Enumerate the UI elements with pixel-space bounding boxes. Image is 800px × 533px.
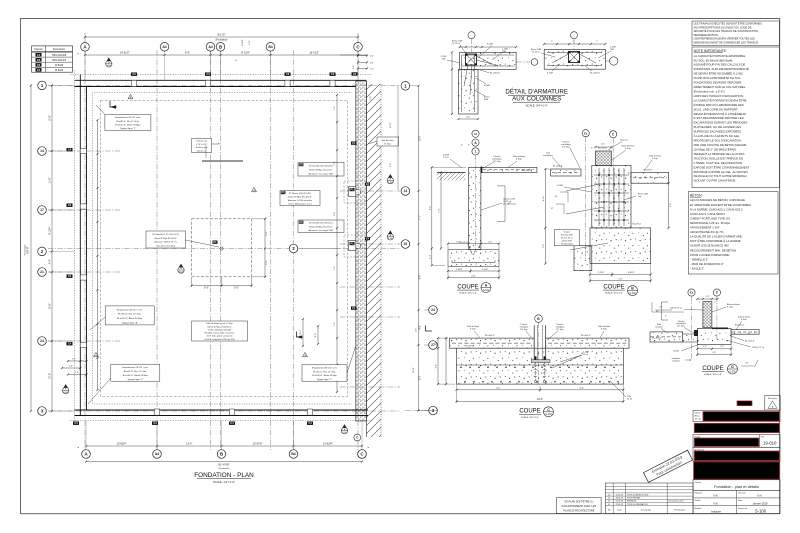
svg-text:HY-200 (Typé): HY-200 (Typé)	[561, 244, 573, 246]
svg-text:Description: Description	[641, 509, 652, 512]
svg-text:No:: No:	[761, 437, 765, 439]
dowel dots	[469, 246, 471, 248]
svg-text:C4: C4	[68, 274, 72, 278]
svg-text:S-100: S-100	[630, 293, 637, 295]
svg-text:Trait de scie: Trait de scie	[196, 140, 208, 143]
svg-text:PAR UNE COUCHE DE BÉTON MAIGRE: PAR UNE COUCHE DE BÉTON MAIGRE	[694, 142, 747, 147]
svg-text:A: A	[485, 284, 488, 288]
svg-text:13'-63/4": 13'-63/4"	[117, 443, 127, 446]
svg-text:Client: Client	[695, 411, 701, 414]
rebar verticals in mass	[598, 168, 600, 226]
right side dims	[668, 183, 670, 228]
svg-text:-RUCTION, SI ELLE EST PRÉVUE E: -RUCTION, SI ELLE EST PRÉVUE EN	[694, 155, 743, 160]
svg-text:7": 7"	[596, 41, 598, 43]
svg-text:1'-6": 1'-6"	[370, 56, 374, 58]
svg-text:ÉL=100'-6", Béton 30 Mpa: ÉL=100'-6", Béton 30 Mpa	[312, 374, 337, 377]
left detail column square	[466, 54, 477, 65]
svg-text:Indiquée: Indiquée	[711, 509, 722, 513]
svg-text:@ 10": @ 10"	[627, 398, 633, 400]
svg-text:Surface max: Surface max	[196, 146, 209, 149]
svg-text:26": 26"	[746, 363, 749, 365]
svg-text:Béton 30 Mpa, ÉL=99'-0": Béton 30 Mpa, ÉL=99'-0"	[155, 237, 178, 240]
svg-text:P1 Pilastre (24"x20"x30"): P1 Pilastre (24"x20"x30")	[289, 192, 312, 195]
svg-text:W 8x20: W 8x20	[55, 69, 64, 72]
svg-text:01: 01	[608, 504, 610, 506]
lower-left block	[574, 246, 592, 271]
svg-text:PROTÉGÉ CONTRE LE GEL, AU MOYE: PROTÉGÉ CONTRE LE GEL, AU MOYEN	[694, 169, 748, 174]
svg-text:existante: existante	[672, 359, 680, 362]
svg-text:AFFAISSEMENT: AFFAISSEMENT 2 3/4"	[690, 226, 720, 230]
svg-text:6": 6"	[236, 59, 238, 61]
svg-text:Armature: 8-15M verticales: Armature: 8-15M verticales	[288, 199, 312, 202]
svg-text:B4: B4	[268, 45, 272, 49]
svg-text:Béton 30 Mpa, ÉL=100'-0": Béton 30 Mpa, ÉL=100'-0"	[208, 325, 232, 328]
svg-text:T&B: T&B	[610, 49, 615, 51]
svg-text:ÉL=97'-0": ÉL=97'-0"	[633, 223, 642, 226]
svg-text:CIMENT PORTLAND TYPE: CIMENT PORTLAND TYPE GU	[690, 216, 730, 220]
bottom segment dimensions	[86, 445, 362, 447]
svg-text:Armature 20M: Armature 20M	[561, 234, 573, 237]
anchor bolts	[535, 363, 537, 381]
svg-text:S-100: S-100	[545, 414, 552, 416]
svg-text:16: 16	[404, 242, 408, 246]
svg-text:ÉL=100'-6": ÉL=100'-6"	[490, 72, 500, 75]
section flags right wall	[387, 177, 393, 183]
svg-text:2'-6": 2'-6"	[266, 260, 268, 264]
svg-text:N.K.: N.K.	[713, 494, 718, 498]
svg-text:LES OUVRAGES DE BÉTON, COFFRAG: LES OUVRAGES DE BÉTON, COFFRAGE	[690, 197, 745, 202]
svg-text:E2 Semelle (42"x60"x16"): E2 Semelle (42"x60"x16")	[309, 166, 333, 168]
svg-text:Empattement 28"x12" cont.: Empattement 28"x12" cont.	[122, 366, 148, 369]
right dim chain	[418, 86, 420, 411]
top dims	[595, 146, 611, 148]
right slab	[731, 330, 759, 335]
svg-text:S-100: S-100	[729, 371, 736, 373]
svg-text:asphaltique: asphaltique	[543, 154, 553, 157]
bottom dims	[697, 348, 731, 350]
svg-text:ÉL=100'-6": ÉL=100'-6"	[590, 72, 600, 75]
svg-text:AIR ENTRAINÉ: AIR ENTRAINÉ 4% @ 7%	[690, 229, 724, 234]
svg-text:N.K.: N.K.	[757, 494, 762, 498]
svg-text:18.02.19: 18.02.19	[616, 498, 623, 500]
left interior dim chain	[97, 120, 99, 390]
title block architecte row	[693, 447, 780, 461]
svg-text:ÉTABLIE PAR UN LABORATOIRE DES: ÉTABLIE PAR UN LABORATOIRE DES	[694, 102, 744, 107]
center footing side dims	[264, 219, 266, 277]
annotation E1 semelle	[146, 231, 186, 248]
svg-text:Mur de béton: Mur de béton	[382, 139, 395, 142]
svg-text:T&B: T&B	[442, 59, 447, 61]
svg-text:Typique ligne "3": Typique ligne "3"	[127, 379, 143, 381]
svg-text:8'-6": 8'-6"	[185, 51, 190, 54]
svg-text:C4: C4	[68, 203, 72, 207]
svg-text:1/2" d'ép.: 1/2" d'ép.	[677, 326, 685, 328]
interior circle 2	[289, 244, 298, 253]
svg-text:ÉL=100'-0": ÉL=100'-0"	[652, 337, 662, 340]
rebar intersection dots	[598, 174, 600, 176]
revision triangles	[128, 94, 133, 98]
svg-text:FONDATIONS DEVRONT REPOSER: FONDATIONS DEVRONT REPOSER	[694, 81, 742, 85]
svg-text:7'-6": 7'-6"	[618, 278, 623, 280]
svg-text:Étriers 10M: Étriers 10M	[531, 48, 542, 51]
stamp rotated	[643, 450, 692, 482]
svg-text:RÉVISION: RÉVISION	[627, 500, 637, 503]
title block row 2 redaction	[694, 423, 779, 432]
svg-text:L'HIVER, TOUT SOL DE FONDATION: L'HIVER, TOUT SOL DE FONDATION	[694, 161, 742, 165]
svg-text:de 8" d'ép. pierre concassée: de 8" d'ép. pierre concassée	[207, 335, 234, 338]
black bits	[694, 330, 698, 336]
svg-text:1: 1	[404, 83, 407, 88]
svg-text:14'-61/2": 14'-61/2"	[120, 51, 130, 54]
rebar dots in footing	[460, 367, 462, 369]
svg-text:SURFACES EXCAVÉES EXPOSÉES: SURFACES EXCAVÉES EXPOSÉES	[694, 129, 742, 134]
svg-text:Béton 30 Mpa, ÉL=100'-6": Béton 30 Mpa, ÉL=100'-6"	[288, 195, 312, 198]
svg-text:DEVRA ÊTRE ENVOYÉ À L'INGÉNIEU: DEVRA ÊTRE ENVOYÉ À L'INGÉNIEUR.	[694, 111, 747, 116]
svg-text:4'-6": 4'-6"	[419, 325, 421, 330]
dims left	[544, 169, 546, 264]
left bracket dims	[660, 302, 662, 320]
dim above footing	[448, 243, 499, 245]
svg-text:1'-2": 1'-2"	[706, 296, 710, 298]
svg-text:(Profondeur min. ± 5'-6").: (Profondeur min. ± 5'-6").	[694, 89, 726, 93]
svg-text:(Fondation): (Fondation)	[219, 467, 230, 470]
svg-text:DE PAILLE OU TOUT AUTRE MATÉRI: DE PAILLE OU TOUT AUTRE MATÉRIAU	[694, 173, 747, 178]
svg-text:dans deux sens (bas): dans deux sens (bas)	[156, 246, 175, 248]
svg-text:8'-6": 8'-6"	[419, 275, 421, 280]
svg-text:(Fondation): (Fondation)	[216, 39, 228, 42]
svg-text:7'-1": 7'-1"	[419, 215, 421, 220]
title block big redaction	[694, 462, 780, 479]
title block dessin row	[693, 480, 780, 491]
bottom right plan corner annotations	[341, 428, 347, 434]
planche asphaltique black bar	[481, 167, 483, 173]
svg-text:Tél : 45: Tél : 45	[695, 419, 701, 421]
svg-text:ÉL=95'-6", Mur 12" d'ép.: ÉL=95'-6", Mur 12" d'ép.	[124, 370, 148, 373]
svg-text:19-010: 19-010	[763, 440, 777, 445]
svg-text:CAN3-A23.3, CAN3-5269.3: CAN3-A23.3, CAN3-5269.3	[690, 212, 725, 216]
svg-text:Préparé: Préparé	[695, 491, 703, 494]
svg-text:ASSUMÉ POUR FIN DES CALCULS DE: ASSUMÉ POUR FIN DES CALCULS DE	[694, 62, 746, 67]
svg-text:Armature: 20M @ 10" c/c: Armature: 20M @ 10" c/c	[155, 241, 177, 244]
small dims near top-right corner	[340, 54, 367, 56]
svg-text:Dessin no: Dessin no	[738, 508, 748, 510]
svg-text:01.02.19: 01.02.19	[616, 501, 623, 503]
svg-text:POUR NON-CONFORMITÉ DU SOL.: POUR NON-CONFORMITÉ DU SOL.	[694, 75, 742, 80]
corner L marker mid2	[426, 326, 433, 332]
svg-text:ÉL=99'-6": ÉL=99'-6"	[644, 169, 653, 172]
svg-text:1/2" d'ép.: 1/2" d'ép.	[562, 146, 570, 148]
coupe D	[650, 289, 764, 376]
svg-text:AUX COLONNES: AUX COLONNES	[512, 95, 561, 102]
title block bottom rows	[693, 490, 780, 513]
svg-text:Dessin: Dessin	[695, 482, 702, 484]
svg-text:PLANS D'ARCHITECTURE: PLANS D'ARCHITECTURE	[563, 509, 595, 513]
svg-text:COUPE: COUPE	[702, 366, 723, 372]
svg-text:À LA NORME: CAN3-A23.1, CAN3-A: À LA NORME: CAN3-A23.1, CAN3-A23.2	[690, 207, 743, 211]
annotation empattement left A	[105, 306, 154, 325]
svg-text:1'-6": 1'-6"	[712, 352, 716, 354]
column	[533, 325, 535, 360]
svg-text:BÉTON:: BÉTON:	[690, 192, 703, 197]
svg-text:3'-0": 3'-0"	[334, 212, 336, 216]
svg-text:1'-11/4": 1'-11/4"	[481, 269, 488, 271]
svg-text:FONDATION - PLAN: FONDATION - PLAN	[194, 472, 254, 479]
coupe B	[543, 130, 684, 312]
coupe A	[429, 130, 537, 294]
svg-text:1'-2": 1'-2"	[703, 346, 707, 348]
svg-text:C2: C2	[37, 58, 41, 62]
svg-text:385 ru: 385 ru	[695, 415, 700, 418]
svg-text:91'-0": 91'-0"	[218, 32, 226, 36]
svg-text:existante: existante	[655, 325, 663, 328]
svg-text:7'-6": 7'-6"	[439, 208, 441, 213]
right bracket dim	[504, 186, 506, 222]
svg-text:7": 7"	[573, 41, 575, 43]
svg-text:C1: C1	[474, 132, 478, 136]
svg-text:ISOLANT OU PAR CHAUFFAGE.: ISOLANT OU PAR CHAUFFAGE.	[694, 179, 737, 183]
top overall dimension	[85, 36, 358, 38]
svg-text:4'-0": 4'-0"	[49, 259, 52, 264]
foundation walls: bottom wall	[75, 409, 369, 411]
svg-text:- SEMELLE: - SEMELLE 3"	[690, 257, 708, 261]
svg-text:ÉL=100'-6", Béton 30 Mpa: ÉL=100'-6", Béton 30 Mpa	[123, 374, 149, 377]
svg-text:2'-6": 2'-6"	[334, 106, 336, 110]
svg-text:C3: C3	[286, 72, 290, 76]
svg-text:E1 Semelle (1'10"x1'10"x1'4"): E1 Semelle (1'10"x1'10"x1'4")	[153, 234, 180, 236]
dims around left detail	[460, 46, 516, 48]
svg-text:1/2" d'ép.: 1/2" d'ép.	[520, 329, 528, 331]
title block client row	[693, 410, 780, 421]
small wall column squares bottom	[154, 409, 159, 415]
svg-text:étriers 10M, [coupe "C-C"]: étriers 10M, [coupe "C-C"]	[288, 202, 312, 205]
svg-text:W 8x25: W 8x25	[55, 64, 64, 67]
svg-text:8" d'ép.: 8" d'ép.	[384, 144, 391, 146]
svg-text:91'-67/8": 91'-67/8"	[218, 463, 229, 467]
svg-text:8'-13/4": 8'-13/4"	[49, 227, 52, 235]
svg-text:C: C	[547, 408, 550, 412]
svg-text:A4: A4	[208, 45, 212, 49]
svg-text:Remarques: Remarques	[675, 509, 686, 512]
svg-text:Béton 30 Mpa, ÉL=97'-0": Béton 30 Mpa, ÉL=97'-0"	[309, 225, 332, 228]
svg-text:P1: P1	[282, 191, 286, 195]
svg-text:HSS 6x6x3/8: HSS 6x6x3/8	[52, 54, 67, 57]
svg-text:Typique ligne "A": Typique ligne "A"	[122, 321, 138, 324]
svg-text:S-15M: S-15M	[673, 351, 679, 353]
svg-text:ÉL=95'-6", Mur 12" d'ép.: ÉL=95'-6", Mur 12" d'ép.	[118, 313, 142, 316]
svg-text:2'-6": 2'-6"	[471, 275, 476, 277]
svg-text:3: 3	[41, 409, 44, 414]
svg-text:COUPE: COUPE	[603, 284, 624, 290]
svg-text:6" d'ép.: 6" d'ép.	[470, 329, 477, 331]
svg-text:LA CAPACITÉ PORTANTE ADMISSIBL: LA CAPACITÉ PORTANTE ADMISSIBLE	[694, 53, 746, 58]
svg-text:Description: Description	[53, 48, 66, 51]
svg-text:Empattement 36"x12" cont.: Empattement 36"x12" cont.	[117, 308, 143, 311]
center footing dims	[192, 285, 252, 287]
svg-text:13'-57/8": 13'-57/8"	[253, 443, 263, 446]
empattement typique ligne C box	[302, 365, 347, 381]
footing	[457, 348, 624, 384]
annotation P1 pilastre	[280, 191, 320, 206]
svg-text:SCALE: 3/4"=1'-0": SCALE: 3/4"=1'-0"	[526, 104, 548, 108]
svg-text:3: 3	[432, 408, 435, 413]
svg-text:10": 10"	[436, 341, 438, 344]
svg-text:14: 14	[404, 189, 408, 193]
svg-text:(Fondation): (Fondation)	[24, 244, 27, 255]
svg-text:2'-0": 2'-0"	[353, 65, 355, 69]
footing rebar line	[452, 262, 495, 264]
svg-text:4": 4"	[78, 52, 80, 54]
svg-text:0-3/4"A, compacté à 95% de P.M: 0-3/4"A, compacté à 95% de P.M.	[204, 338, 235, 341]
svg-text:8'-0": 8'-0"	[429, 205, 431, 210]
svg-text:C3: C3	[331, 72, 335, 76]
svg-text:Treillis métallique 6x6x6/6: Treillis métallique 6x6x6/6	[208, 328, 232, 331]
svg-text:ACNOR G30.18 NUANCE 400: ACNOR G30.18 NUANCE 400	[690, 244, 729, 248]
svg-text:16'-01/2": 16'-01/2"	[309, 51, 319, 54]
svg-text:C4: C4	[230, 421, 234, 425]
svg-text:C4: C4	[68, 342, 72, 346]
svg-text:IL EST RECOMMANDÉ D'ÉVITER LES: IL EST RECOMMANDÉ D'ÉVITER LES	[694, 115, 744, 120]
svg-text:Empattement 36"x12" cont.: Empattement 36"x12" cont.	[115, 116, 141, 119]
svg-text:E1: E1	[213, 240, 217, 244]
svg-text:Béton 30 Mpa, ÉL=97'-0": Béton 30 Mpa, ÉL=97'-0"	[309, 169, 332, 172]
column marks along top wall	[131, 73, 137, 76]
svg-text:POUR L'ACIER D'ARMATURE:: POUR L'ACIER D'ARMATURE:	[690, 253, 730, 257]
annotation empattement top-left	[105, 115, 151, 131]
svg-text:10M: 10M	[484, 99, 488, 101]
svg-text:3'-0": 3'-0"	[543, 243, 545, 248]
svg-text:NOTE IMPORTANTE:: NOTE IMPORTANTE:	[694, 49, 727, 53]
svg-text:S-100: S-100	[63, 392, 68, 394]
svg-text:S-100: S-100	[179, 271, 184, 273]
annotation E2 semelle lower	[298, 220, 344, 233]
svg-text:1'-6": 1'-6"	[75, 372, 79, 374]
svg-text:ÉL=100'-0": ÉL=100'-0"	[553, 165, 563, 168]
svg-text:2'-6": 2'-6"	[249, 40, 251, 44]
svg-text:Échelle: Échelle	[695, 507, 703, 510]
svg-text:4'-41/2": 4'-41/2"	[628, 272, 635, 274]
foundation walls: top wall	[75, 79, 367, 81]
svg-text:DIMENSIONS AVANT DE COMMENCER: DIMENSIONS AVANT DE COMMENCER LES TRAVAU…	[694, 40, 760, 44]
left dims	[437, 338, 439, 384]
svg-text:7": 7"	[551, 41, 553, 43]
svg-text:3'-6": 3'-6"	[416, 328, 418, 332]
svg-text:SCALE: 3/4"=1'-0": SCALE: 3/4"=1'-0"	[459, 292, 477, 295]
svg-text:4" d'ép.: 4" d'ép.	[625, 148, 632, 150]
svg-text:C1: C1	[352, 306, 356, 310]
section flag interior	[178, 267, 184, 273]
svg-text:1'-6": 1'-6"	[370, 62, 374, 64]
svg-text:Vérifié: Vérifié	[695, 499, 702, 502]
svg-text:(en quinconce): (en quinconce)	[503, 204, 517, 206]
annotation dalle de beton	[192, 321, 248, 341]
svg-text:LA QUALITÉ DE L'ACIER D'ARMATU: LA QUALITÉ DE L'ACIER D'ARMATURE	[690, 234, 742, 239]
left dim	[431, 167, 433, 265]
svg-text:Armature: voir coupe "B-B": Armature: voir coupe "B-B"	[309, 173, 334, 176]
right detail column square	[569, 52, 580, 63]
right wall inner dim chain	[336, 95, 338, 392]
svg-text:03: 03	[608, 498, 610, 500]
corner L marker top-left	[110, 101, 117, 107]
corner L marker mid	[297, 332, 304, 338]
left segment dimensions	[51, 85, 53, 411]
svg-text:E2: E2	[300, 163, 304, 167]
svg-text:Ex: Ex	[584, 131, 588, 135]
svg-text:PROTÉGER LE SOL D'EXCAVATION: PROTÉGER LE SOL D'EXCAVATION	[694, 138, 742, 143]
svg-text:6" d'ép.: 6" d'ép.	[741, 319, 748, 321]
column marks along bottom wall	[73, 422, 79, 425]
column schedule table	[32, 46, 73, 72]
svg-text:FONDATION. AUCUNE RESPONSABILI: FONDATION. AUCUNE RESPONSABILITÉ	[694, 66, 749, 71]
svg-text:11'-4": 11'-4"	[300, 329, 302, 334]
notes box 2: note importante	[692, 47, 780, 188]
svg-text:12"c/c: 12"c/c	[443, 157, 449, 159]
svg-text:LORS DES TRAVAUX D'EXCAVATION,: LORS DES TRAVAUX D'EXCAVATION,	[694, 94, 744, 98]
svg-text:DU SOL: 85 kN/m²(1800 lbs/#),: DU SOL: 85 kN/m²(1800 lbs/#),	[694, 58, 734, 62]
svg-text:SCALE: 3/4"=1'-0": SCALE: 3/4"=1'-0"	[605, 292, 623, 295]
svg-text:02: 02	[608, 501, 610, 503]
bottom overall dimension	[86, 461, 362, 463]
svg-text:A4: A4	[155, 452, 159, 456]
right grid circles	[401, 82, 410, 91]
anchor bolt heads	[535, 356, 537, 359]
svg-text:C2: C2	[353, 72, 357, 76]
svg-text:EXPOSÉ DOIT ÊTRE CONVENABLEMEN: EXPOSÉ DOIT ÊTRE CONVENABLEMENT	[694, 164, 750, 169]
svg-text:34": 34"	[656, 311, 659, 313]
svg-text:3'-8": 3'-8"	[670, 203, 672, 207]
svg-text:2: 2	[41, 249, 44, 254]
svg-text:@ 12"c/c: @ 12"c/c	[532, 52, 540, 54]
plan grid lines horizontal	[48, 84, 400, 86]
svg-text:POUR PERMIS: POUR PERMIS	[627, 498, 641, 500]
svg-text:C4: C4	[37, 68, 41, 72]
footing internal joint line	[457, 364, 624, 366]
left grid circles	[38, 81, 47, 90]
svg-text:10'-0": 10'-0"	[537, 399, 543, 401]
svg-text:13'-6": 13'-6"	[390, 122, 392, 128]
svg-text:Structure: Structure	[620, 139, 628, 142]
trait de scie notebox	[192, 139, 212, 153]
svg-text:22.02.19: 22.02.19	[616, 494, 623, 496]
pilaster footing dashed boxes	[344, 181, 366, 203]
svg-text:HSS 6x6x1/4: HSS 6x6x1/4	[52, 59, 67, 62]
svg-text:5'-0": 5'-0"	[204, 286, 209, 289]
svg-text:4'-10": 4'-10"	[543, 195, 545, 201]
svg-text:Typique ligne "C": Typique ligne "C"	[317, 379, 333, 381]
svg-text:Empattement 36"x12" cont.: Empattement 36"x12" cont.	[312, 367, 338, 370]
svg-text:5'-0": 5'-0"	[579, 387, 584, 389]
svg-text:Typ.: Typ.	[638, 196, 642, 198]
svg-text:AUX PRESCRIPTIONS DU CNB ET DU: AUX PRESCRIPTIONS DU CNB ET DU CODE DE	[694, 25, 752, 29]
middle connection	[683, 334, 698, 342]
svg-text:5'-0": 5'-0"	[315, 333, 317, 337]
svg-text:C4: C4	[308, 421, 312, 425]
interior slab dashed outline	[101, 101, 348, 397]
svg-text:6-15M: 6-15M	[487, 44, 493, 46]
svg-text:1: 1	[41, 83, 44, 88]
svg-text:2'-6": 2'-6"	[334, 322, 336, 326]
svg-text:POUR CONSTRUCTION: POUR CONSTRUCTION	[627, 494, 649, 496]
svg-text:1.75"x 0.25": 1.75"x 0.25"	[196, 144, 207, 146]
svg-text:DIRECTEMENT SUR LE SOL NATUREL: DIRECTEMENT SUR LE SOL NATUREL	[694, 85, 746, 89]
svg-text:E2: E2	[300, 220, 304, 224]
section flag top wall	[106, 61, 112, 67]
svg-text:1'-4": 1'-4"	[601, 144, 605, 146]
annotation empattement left bottom	[111, 364, 160, 381]
crosshatch column	[595, 151, 611, 165]
svg-text:12'-6": 12'-6"	[49, 115, 52, 121]
svg-text:Remblai sous la dalle: 3 couch: Remblai sous la dalle: 3 couches	[205, 333, 235, 335]
svg-text:8'-13/4": 8'-13/4"	[241, 51, 250, 54]
